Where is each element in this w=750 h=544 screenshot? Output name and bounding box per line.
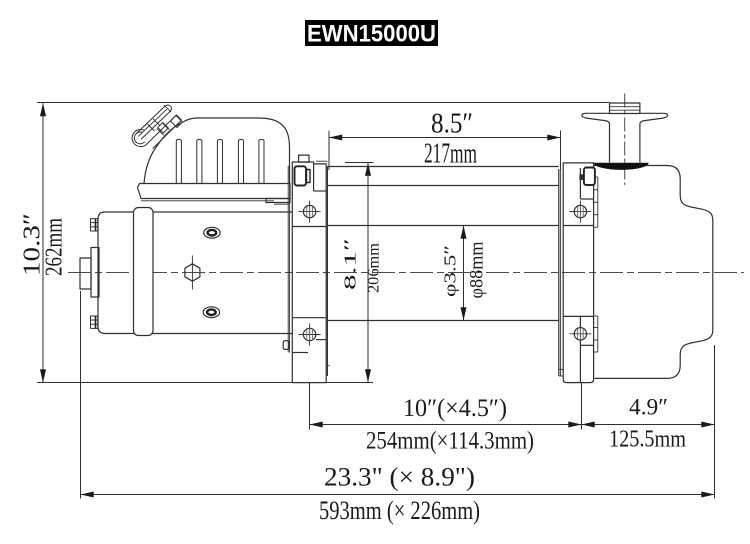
svg-text:125.5mm: 125.5mm xyxy=(609,427,686,453)
svg-text:8.1″: 8.1″ xyxy=(341,238,360,290)
svg-text:593mm (× 226mm): 593mm (× 226mm) xyxy=(319,496,480,525)
svg-text:4.9″: 4.9″ xyxy=(629,395,668,420)
svg-text:254mm(×114.3mm): 254mm(×114.3mm) xyxy=(366,428,534,455)
svg-text:10″(×4.5″): 10″(×4.5″) xyxy=(403,395,507,422)
svg-text:φ88mm: φ88mm xyxy=(467,241,488,298)
svg-text:23.3" (× 8.9"): 23.3" (× 8.9") xyxy=(324,463,475,492)
svg-text:EWN15000U: EWN15000U xyxy=(307,21,436,48)
svg-text:206mm: 206mm xyxy=(366,242,383,293)
svg-text:217mm: 217mm xyxy=(424,138,477,169)
svg-text:8.5″: 8.5″ xyxy=(431,109,473,140)
svg-text:φ3.5″: φ3.5″ xyxy=(441,245,460,297)
svg-text:262mm: 262mm xyxy=(41,218,68,276)
